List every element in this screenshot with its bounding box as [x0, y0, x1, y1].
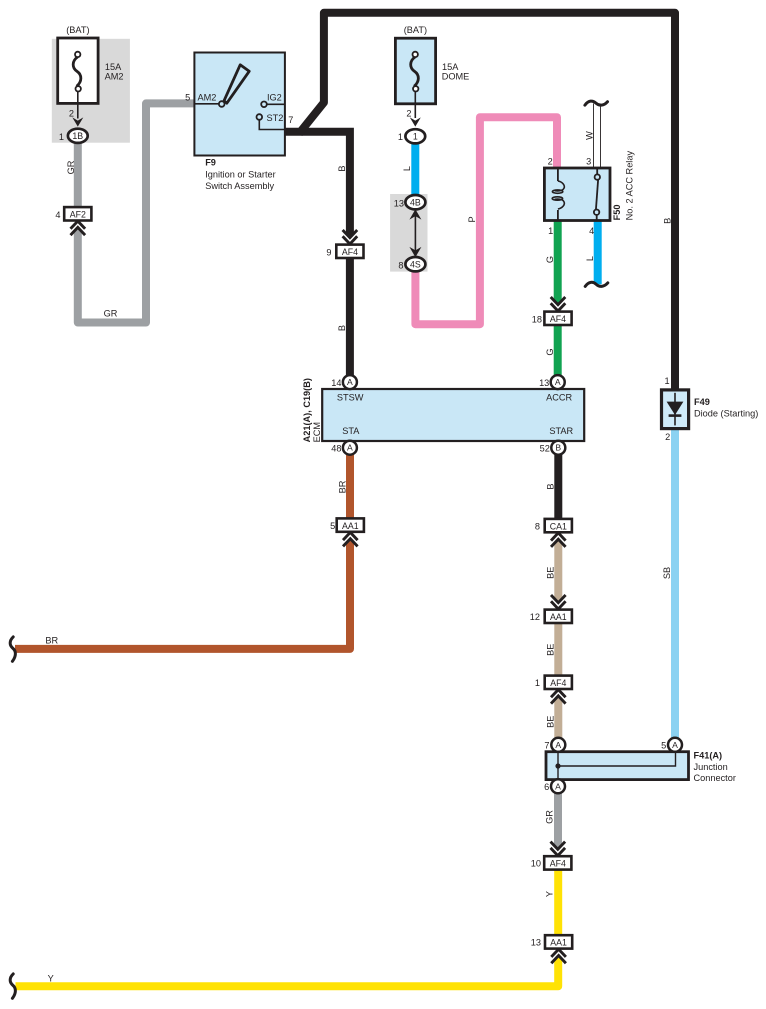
svg-text:BE: BE [546, 567, 556, 579]
svg-text:BE: BE [546, 644, 556, 656]
svg-text:L: L [585, 256, 595, 261]
svg-text:F41(A): F41(A) [694, 751, 723, 761]
svg-text:B: B [546, 483, 556, 489]
svg-text:GR: GR [104, 309, 118, 319]
svg-text:14: 14 [331, 378, 341, 388]
svg-text:5: 5 [330, 521, 335, 531]
svg-text:G: G [545, 348, 555, 355]
svg-text:12: 12 [530, 612, 540, 622]
svg-text:7: 7 [288, 115, 293, 125]
svg-text:2: 2 [665, 432, 670, 442]
svg-text:F50: F50 [612, 205, 622, 221]
svg-text:5: 5 [185, 93, 190, 103]
svg-text:GR: GR [545, 810, 555, 824]
svg-text:2: 2 [548, 156, 553, 166]
svg-text:1: 1 [413, 132, 418, 142]
svg-text:BR: BR [337, 480, 347, 493]
svg-text:A: A [347, 443, 353, 453]
svg-text:A: A [555, 740, 561, 750]
svg-text:1: 1 [664, 376, 669, 386]
svg-text:8: 8 [535, 521, 540, 531]
svg-text:15A: 15A [105, 62, 122, 72]
svg-text:Switch Assembly: Switch Assembly [205, 181, 274, 191]
svg-text:13: 13 [394, 199, 404, 209]
svg-text:STAR: STAR [549, 426, 573, 436]
svg-text:AF2: AF2 [70, 210, 86, 220]
svg-text:AM2: AM2 [105, 71, 124, 81]
svg-text:1: 1 [548, 226, 553, 236]
svg-text:G: G [545, 256, 555, 263]
svg-text:P: P [467, 216, 477, 222]
svg-text:AM2: AM2 [198, 93, 217, 103]
svg-text:(BAT): (BAT) [66, 25, 89, 35]
svg-text:18: 18 [532, 315, 542, 325]
svg-text:AF4: AF4 [550, 859, 566, 869]
svg-text:BR: BR [45, 635, 58, 645]
svg-text:AA1: AA1 [550, 938, 567, 948]
svg-text:B: B [555, 443, 561, 453]
svg-text:9: 9 [326, 248, 331, 258]
svg-text:SB: SB [662, 567, 672, 579]
svg-text:AF4: AF4 [550, 314, 566, 324]
svg-text:STSW: STSW [337, 393, 364, 403]
svg-text:2: 2 [406, 109, 411, 119]
svg-text:ECM: ECM [312, 422, 322, 442]
svg-text:A21(A), C19(B): A21(A), C19(B) [302, 378, 312, 442]
svg-text:AA1: AA1 [550, 612, 567, 622]
svg-text:B: B [337, 325, 347, 331]
svg-text:ST2: ST2 [267, 113, 284, 123]
svg-text:BE: BE [546, 716, 556, 728]
svg-text:Junction: Junction [694, 762, 728, 772]
svg-text:13: 13 [539, 378, 549, 388]
svg-text:13: 13 [531, 938, 541, 948]
svg-text:4: 4 [589, 226, 594, 236]
svg-text:B: B [337, 165, 347, 171]
svg-text:52: 52 [540, 443, 550, 453]
svg-text:AF4: AF4 [550, 678, 566, 688]
svg-text:48: 48 [331, 443, 341, 453]
svg-text:F9: F9 [205, 157, 216, 167]
svg-text:Diode (Starting): Diode (Starting) [694, 408, 758, 418]
svg-text:8: 8 [398, 261, 403, 271]
svg-text:5: 5 [661, 740, 666, 750]
svg-text:Ignition or Starter: Ignition or Starter [205, 170, 275, 180]
svg-text:A: A [555, 781, 561, 791]
svg-text:A: A [672, 740, 678, 750]
svg-text:IG2: IG2 [267, 93, 282, 103]
svg-text:1: 1 [398, 132, 403, 142]
svg-text:3: 3 [586, 156, 591, 166]
svg-text:4: 4 [55, 210, 60, 220]
svg-text:STA: STA [342, 426, 360, 436]
svg-text:CA1: CA1 [550, 521, 567, 531]
svg-text:AF4: AF4 [342, 247, 358, 257]
svg-text:No. 2 ACC Relay: No. 2 ACC Relay [624, 151, 634, 221]
svg-text:1: 1 [59, 132, 64, 142]
svg-text:DOME: DOME [442, 71, 470, 81]
svg-text:Y: Y [48, 973, 54, 983]
svg-text:4S: 4S [410, 260, 421, 270]
svg-text:W: W [585, 131, 595, 140]
svg-text:7: 7 [544, 740, 549, 750]
svg-text:ACCR: ACCR [546, 393, 572, 403]
svg-text:2: 2 [69, 109, 74, 119]
svg-text:A: A [555, 377, 561, 387]
svg-text:L: L [402, 166, 412, 171]
svg-text:Connector: Connector [694, 773, 736, 783]
svg-text:B: B [663, 218, 673, 224]
svg-text:(BAT): (BAT) [404, 25, 427, 35]
svg-text:6: 6 [544, 782, 549, 792]
svg-text:1B: 1B [72, 131, 83, 141]
svg-text:15A: 15A [442, 62, 459, 72]
svg-text:Y: Y [545, 891, 555, 897]
svg-text:1: 1 [535, 678, 540, 688]
svg-text:AA1: AA1 [342, 521, 359, 531]
svg-text:A: A [347, 377, 353, 387]
svg-text:4B: 4B [410, 198, 421, 208]
svg-text:F49: F49 [694, 397, 710, 407]
svg-text:GR: GR [66, 160, 76, 174]
svg-text:10: 10 [531, 858, 541, 868]
